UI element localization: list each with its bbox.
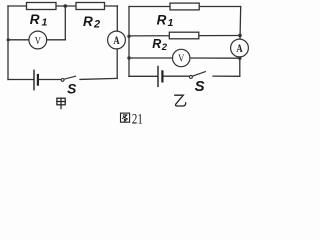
switch S (left circuit) lever <box>64 76 76 79</box>
wire left-circuit right frame upper <box>116 6 118 32</box>
caption tu (图) box <box>121 113 130 122</box>
switch S (right circuit) lever <box>192 72 205 77</box>
wire left-circuit switch to right corner <box>80 78 117 79</box>
label yi (乙) <box>175 95 186 106</box>
wire right-circuit switch to right corner <box>213 75 240 77</box>
wire right-circuit right frame upper <box>239 7 242 40</box>
switch S (left circuit) pivot <box>61 79 64 82</box>
ammeter A (right circuit) <box>231 39 249 57</box>
svg-text:1: 1 <box>168 17 174 29</box>
svg-text:S: S <box>67 82 77 97</box>
svg-text:V: V <box>35 35 42 47</box>
wire left-circuit top <box>8 5 118 7</box>
wire voltmeter row right <box>190 57 240 59</box>
wire right-circuit bottom to battery <box>129 75 157 77</box>
resistor R2 (right circuit) <box>169 32 199 39</box>
battery (right circuit) short plate <box>161 71 163 81</box>
node junction dot top (left circuit) <box>64 4 68 8</box>
wire left-circuit left frame <box>7 6 9 80</box>
svg-text:2: 2 <box>93 18 100 30</box>
node junction dot R2 row right (right circuit) <box>238 34 242 38</box>
battery (left circuit) short plate <box>37 75 39 85</box>
wire right-circuit right frame mid <box>239 57 241 58</box>
svg-text:R: R <box>152 37 161 51</box>
svg-text:R: R <box>30 12 40 27</box>
label R1 (right circuit) <box>157 12 174 29</box>
svg-text:R: R <box>157 12 167 27</box>
label R2 (left circuit) <box>83 14 100 30</box>
node junction dot R2 row left (right circuit) <box>127 35 130 38</box>
wire voltmeter right <box>47 39 66 41</box>
wire right-circuit left frame <box>128 7 130 77</box>
wire left-circuit bottom to battery <box>8 79 33 81</box>
wire voltmeter left <box>8 39 29 41</box>
label R1 (left circuit) <box>30 12 48 29</box>
label R2 (right circuit) <box>152 37 168 53</box>
resistor R1 (left circuit) <box>27 3 57 10</box>
wire right-circuit top <box>129 6 241 8</box>
node junction dot V row left (right circuit) <box>127 56 130 59</box>
ammeter A (left circuit) <box>108 31 126 49</box>
wire left-circuit right frame lower <box>116 49 118 79</box>
wire right-circuit right frame lower <box>239 58 241 76</box>
svg-text:A: A <box>113 35 120 47</box>
wire R2 row <box>129 35 240 37</box>
battery (left circuit) long plate <box>33 70 35 89</box>
switch S (right circuit) pivot <box>189 75 192 78</box>
label jia (甲) <box>57 98 65 108</box>
resistor R1 (right circuit) <box>170 3 199 10</box>
svg-text:A: A <box>236 43 243 55</box>
voltmeter V (left circuit) <box>29 31 47 49</box>
svg-text:2: 2 <box>161 42 168 53</box>
svg-text:21: 21 <box>132 111 143 127</box>
wire left-circuit battery to switch <box>39 79 61 81</box>
svg-text:V: V <box>178 53 185 65</box>
svg-text:S: S <box>195 78 205 95</box>
battery (right circuit) long plate <box>157 66 159 86</box>
wire right-circuit battery to switch <box>163 75 189 77</box>
resistor R2 (left circuit) <box>76 3 105 10</box>
wire voltmeter riser <box>64 6 66 40</box>
wire voltmeter row left <box>129 57 173 59</box>
svg-text:1: 1 <box>42 17 48 29</box>
svg-text:R: R <box>83 14 93 29</box>
voltmeter V (right circuit) <box>173 49 190 66</box>
node junction dot V row right (right circuit) <box>238 57 241 60</box>
node junction dot left frame (left circuit) <box>7 38 10 41</box>
